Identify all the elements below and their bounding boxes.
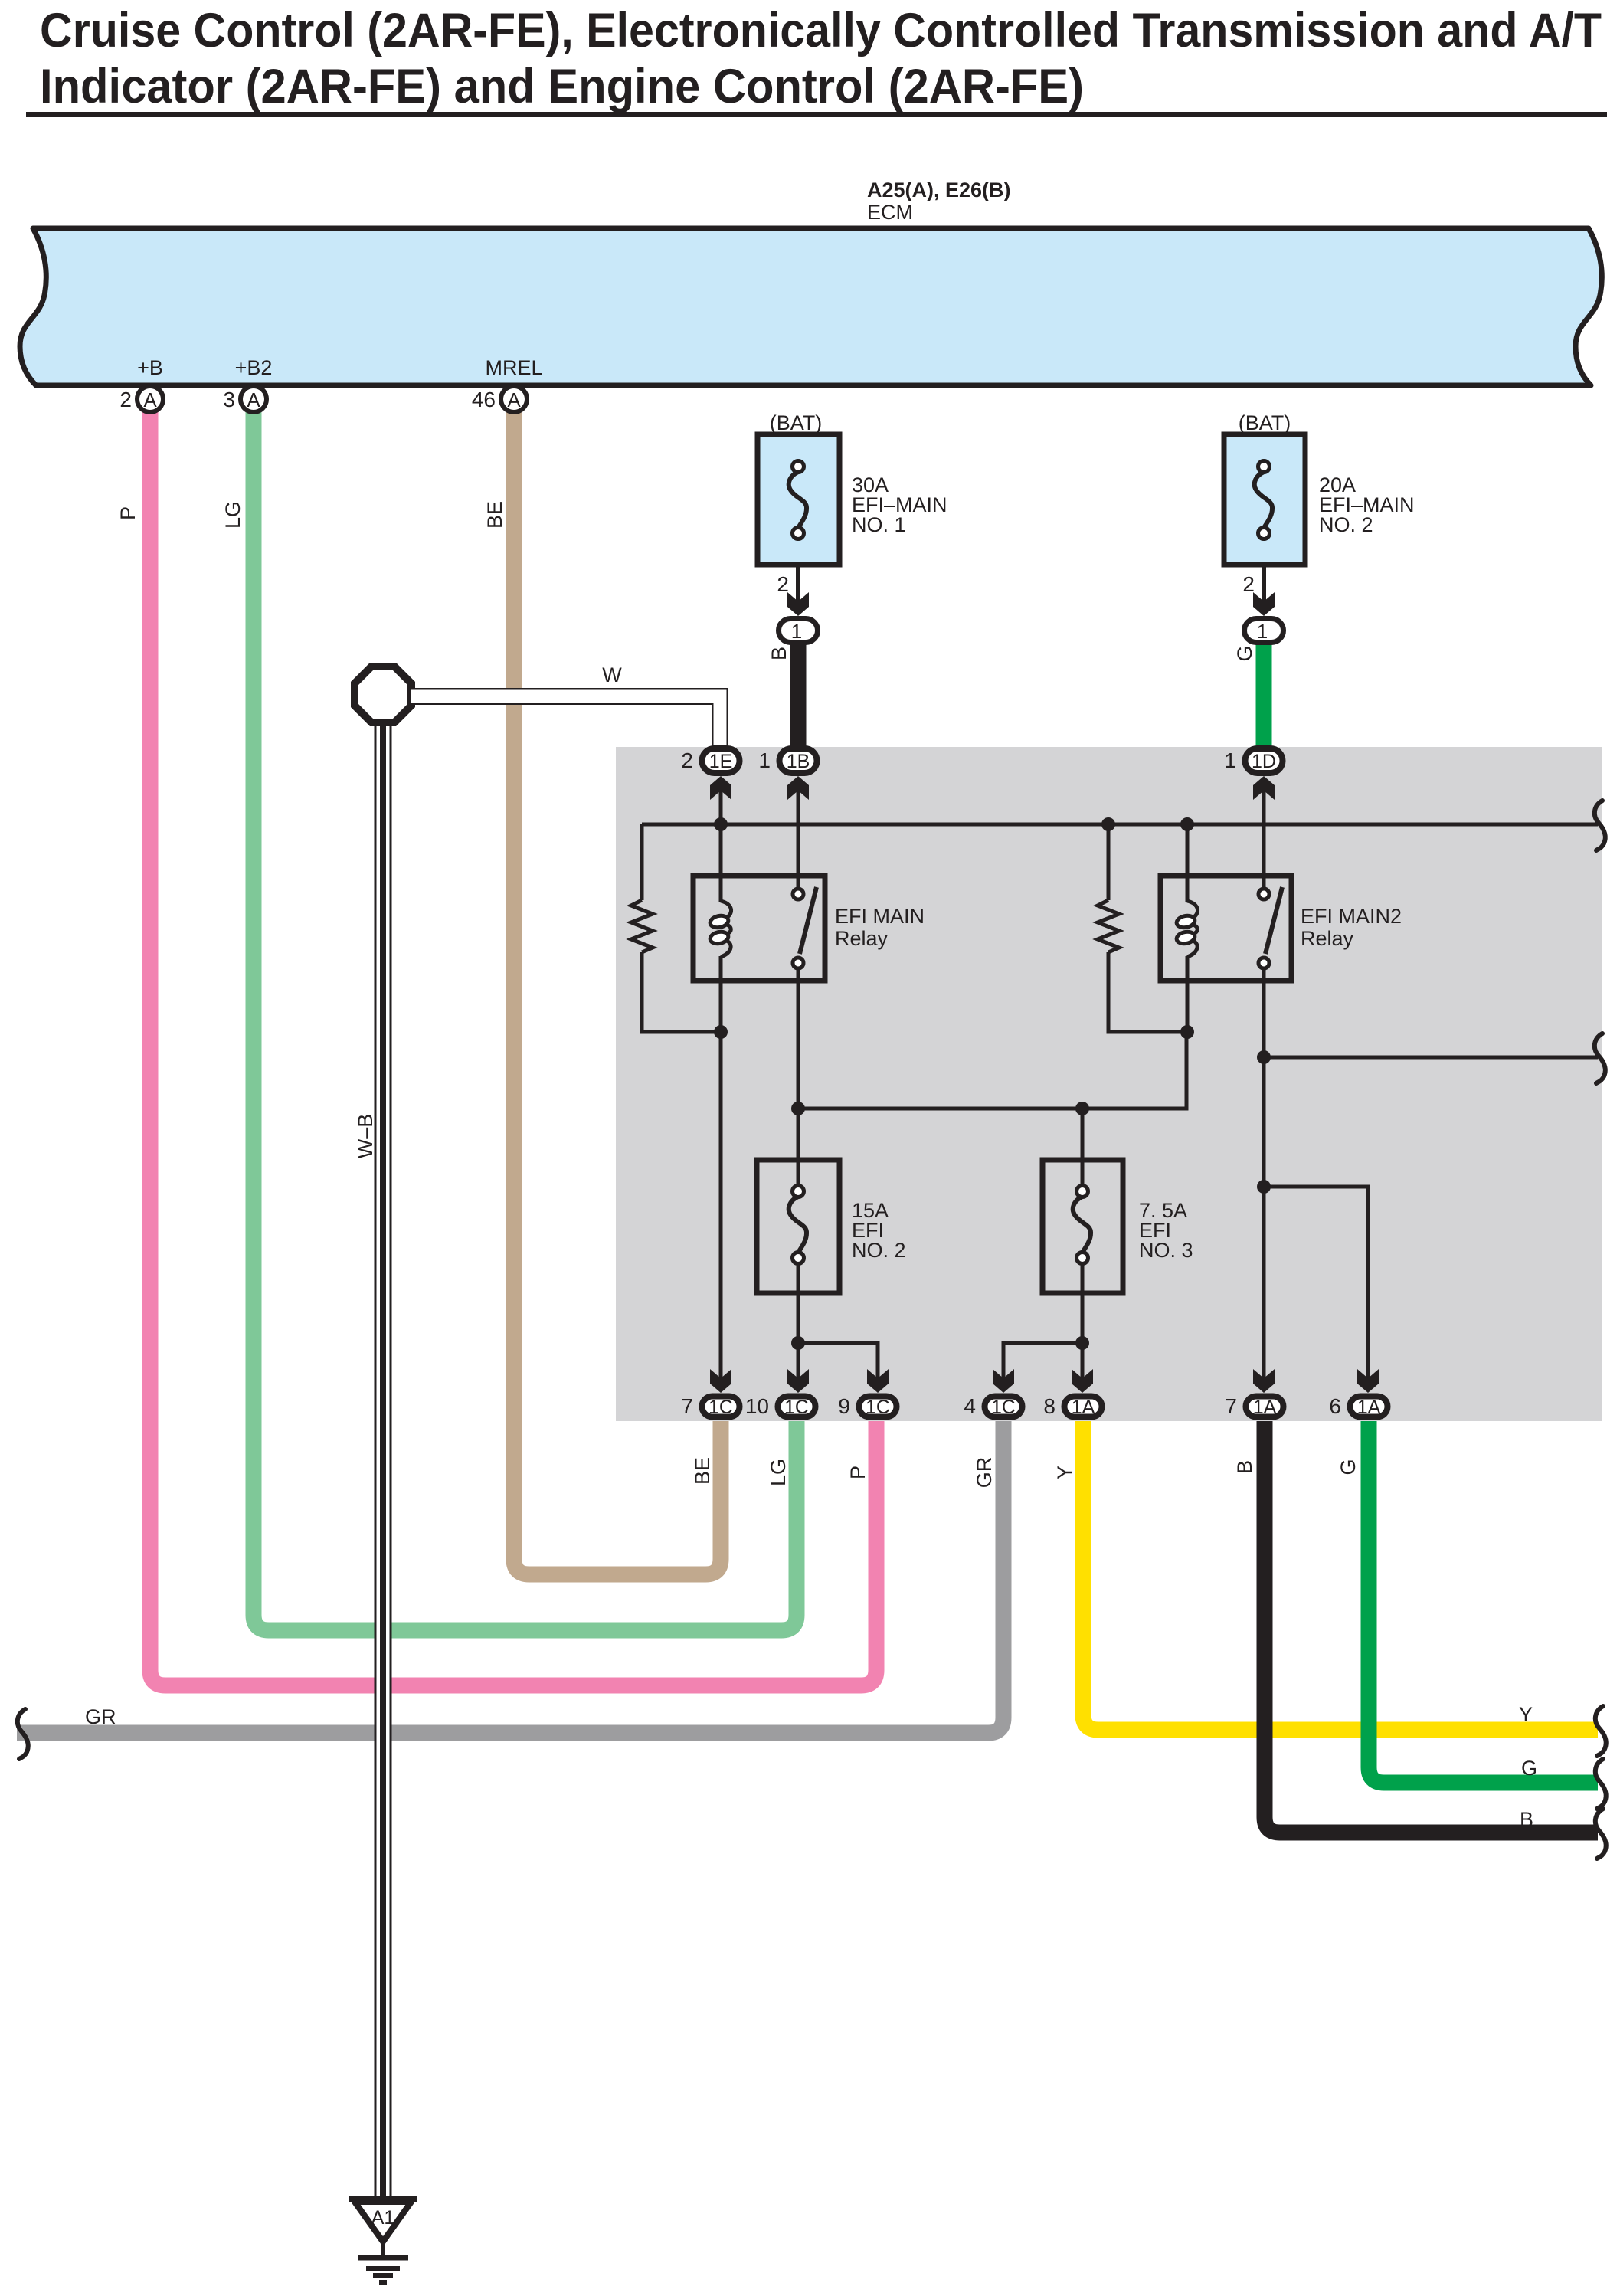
- fuse1 value label: [852, 473, 947, 536]
- wire P from pin 2: [150, 406, 876, 1685]
- svg-text:A1: A1: [371, 2207, 395, 2229]
- octagon junction node: [355, 667, 411, 722]
- connector oval 7 1A: [1225, 1394, 1283, 1418]
- svg-text:P: P: [116, 506, 139, 520]
- svg-text:2: 2: [681, 748, 693, 772]
- svg-text:1: 1: [1224, 748, 1236, 772]
- connector oval 10 1C: [745, 1394, 816, 1418]
- svg-text:1: 1: [1257, 620, 1268, 643]
- svg-text:1: 1: [758, 748, 771, 772]
- branch to 4 1C: [1003, 1343, 1082, 1378]
- svg-text:2: 2: [119, 388, 132, 411]
- svg-text:1A: 1A: [1072, 1397, 1095, 1418]
- arrow down into 9 1C: [867, 1369, 889, 1393]
- svg-text:Relay: Relay: [1301, 927, 1354, 950]
- relay1 switch wire (1B vertical): [797, 791, 800, 1378]
- circuit line1 (relay feed bus): [642, 823, 1598, 827]
- svg-text:A: A: [143, 388, 157, 411]
- arrow up into 1B: [787, 776, 809, 800]
- svg-text:(BAT): (BAT): [1239, 411, 1291, 434]
- svg-text:3: 3: [223, 388, 235, 411]
- svg-text:NO. 2: NO. 2: [852, 1239, 906, 1262]
- line1 left drop to resistor1: [640, 824, 644, 900]
- junction dot: relay1 coil / bus line1: [714, 817, 728, 831]
- svg-text:Cruise Control (2AR-FE), Elect: Cruise Control (2AR-FE), Electronically …: [40, 4, 1602, 57]
- pin circle A (3, +B2): [223, 386, 267, 412]
- svg-text:1C: 1C: [784, 1397, 809, 1418]
- svg-text:A25(A), E26(B): A25(A), E26(B): [867, 179, 1011, 201]
- svg-text:1C: 1C: [991, 1397, 1016, 1418]
- relay2 coil wire: [1186, 824, 1190, 1032]
- wire W-B octagon to ground: [375, 705, 392, 2197]
- svg-text:+B2: +B2: [235, 356, 273, 379]
- relay1 label: [835, 905, 925, 950]
- svg-text:A: A: [507, 388, 521, 411]
- svg-text:MREL: MREL: [485, 356, 542, 379]
- branch to 6 1A: [1264, 1187, 1368, 1378]
- line3 relay1 output to fuses and relay2 coil: [798, 1032, 1186, 1109]
- junction dot: resistor2 bottom / relay2 coil: [1180, 1025, 1194, 1039]
- svg-text:EFI MAIN2: EFI MAIN2: [1301, 905, 1402, 928]
- svg-text:46: 46: [472, 388, 496, 411]
- svg-text:6: 6: [1329, 1394, 1341, 1418]
- fuse1 lead to connector 1: [777, 565, 809, 616]
- svg-text:1A: 1A: [1253, 1397, 1277, 1418]
- ground symbol A1: [349, 2199, 417, 2282]
- svg-text:GR: GR: [973, 1457, 996, 1489]
- svg-text:4: 4: [964, 1394, 976, 1418]
- svg-text:Indicator (2AR-FE) and Engine: Indicator (2AR-FE) and Engine Control (2…: [40, 60, 1084, 113]
- svg-text:G: G: [1337, 1459, 1360, 1475]
- svg-text:LG: LG: [767, 1459, 790, 1486]
- fuse 30A EFI-MAIN NO.1 box: [758, 434, 839, 565]
- svg-text:W: W: [602, 663, 622, 686]
- svg-text:2: 2: [1242, 572, 1255, 596]
- junction dot: resistor2 / bus line1: [1101, 817, 1115, 831]
- fuse 15A EFI NO.2 box: [757, 1160, 839, 1293]
- connector oval 1 (fuse1): [779, 619, 818, 644]
- junction dot: relay1 switch output: [791, 1102, 805, 1115]
- svg-text:BE: BE: [691, 1457, 714, 1485]
- svg-text:B: B: [1520, 1808, 1533, 1831]
- svg-text:NO. 1: NO. 1: [852, 513, 906, 536]
- arrow down into 10 1C: [787, 1369, 809, 1393]
- wire G fuse2 to 1D: [1256, 645, 1272, 747]
- svg-text:9: 9: [838, 1394, 850, 1418]
- svg-text:B: B: [1233, 1460, 1256, 1474]
- pin circle A (46, MREL): [472, 386, 527, 412]
- junction dot: resistor1 bottom / relay1 coil: [714, 1025, 728, 1039]
- title: [26, 4, 1607, 117]
- break on B wire: [1595, 1809, 1606, 1859]
- svg-text:G: G: [1521, 1757, 1537, 1780]
- svg-text:B: B: [767, 647, 790, 660]
- line2 relay2 output bus: [1264, 1056, 1598, 1060]
- fuse2 value label: [1319, 473, 1415, 536]
- junction dot: relay2 switch output bus: [1257, 1050, 1271, 1064]
- arrow down into 4 1C: [993, 1369, 1014, 1393]
- svg-text:2: 2: [777, 572, 789, 596]
- junction dot: relay2 output branch to 6 1A: [1257, 1180, 1271, 1194]
- break on GR wire: [18, 1709, 28, 1759]
- wire W octagon to 1E: [410, 696, 720, 747]
- resistor2 bottom lead: [1108, 952, 1187, 1032]
- svg-text:LG: LG: [221, 501, 244, 529]
- fuse 7.5A label: [1139, 1199, 1193, 1262]
- svg-text:EFI MAIN: EFI MAIN: [835, 905, 925, 928]
- fuse 15A label: [852, 1199, 906, 1262]
- svg-text:Y: Y: [1519, 1703, 1533, 1726]
- svg-text:BE: BE: [483, 501, 506, 529]
- connector oval 9 1C: [838, 1394, 896, 1418]
- resistor2: [1098, 900, 1119, 952]
- connector oval 7 1C: [681, 1394, 739, 1418]
- junction dot: fuse 15A output branch: [791, 1336, 805, 1350]
- junction dot: fuse 7.5A output branch: [1075, 1336, 1089, 1350]
- svg-text:GR: GR: [85, 1705, 116, 1728]
- wire BE from pin 46: [514, 406, 721, 1574]
- arrow up into 1E: [710, 776, 731, 800]
- arrow down into 7 1A: [1253, 1369, 1275, 1393]
- svg-text:7: 7: [681, 1394, 693, 1418]
- connector oval 8 1A: [1043, 1394, 1101, 1418]
- svg-text:+B: +B: [137, 356, 163, 379]
- svg-text:NO. 2: NO. 2: [1319, 513, 1373, 536]
- svg-text:1D: 1D: [1252, 751, 1276, 772]
- resistor1: [631, 900, 653, 952]
- arrow down into 7 1C: [710, 1369, 731, 1393]
- arrow down into 8 1A: [1072, 1369, 1093, 1393]
- relay1 coil wire (1E vertical): [719, 791, 723, 1378]
- relay1 switch contacts and blade: [793, 887, 817, 968]
- wire B fuse1 to 1B: [790, 645, 807, 747]
- svg-text:1C: 1C: [709, 1397, 733, 1418]
- svg-text:NO. 3: NO. 3: [1139, 1239, 1193, 1262]
- break on G wire: [1595, 1759, 1606, 1809]
- break on line1: [1595, 801, 1605, 850]
- relay2 box: [1160, 876, 1291, 981]
- wire LG from pin 3: [254, 406, 797, 1630]
- wire GR from 4 1C: [17, 1420, 1003, 1733]
- svg-text:7: 7: [1225, 1394, 1237, 1418]
- connector oval 1 (fuse2): [1245, 619, 1284, 644]
- resistor1 bottom lead: [642, 952, 721, 1032]
- svg-text:1B: 1B: [787, 751, 810, 772]
- relay2 switch contacts and blade: [1258, 887, 1282, 968]
- svg-text:1C: 1C: [866, 1397, 890, 1418]
- arrow up into 1D: [1253, 776, 1275, 800]
- svg-text:1A: 1A: [1357, 1397, 1381, 1418]
- connector oval 6 1A: [1329, 1394, 1387, 1418]
- arrow down into 6 1A: [1357, 1369, 1379, 1393]
- relay2 switch wire (1D vertical): [1262, 791, 1266, 1378]
- svg-text:1: 1: [791, 620, 802, 643]
- svg-text:ECM: ECM: [867, 201, 913, 224]
- relay2 label: [1301, 905, 1402, 950]
- fuse 20A EFI-MAIN NO.2 box: [1224, 434, 1305, 565]
- junction dot: relay2 coil / bus line1: [1180, 817, 1194, 831]
- branch to 9 1C: [798, 1343, 878, 1378]
- wire G from 6 1A: [1369, 1420, 1598, 1783]
- gray junction block: [616, 747, 1602, 1421]
- wire B from 7 1A: [1265, 1420, 1598, 1833]
- connector oval 1D: [1224, 748, 1282, 773]
- resistor2 branch: [1107, 824, 1111, 900]
- svg-text:10: 10: [745, 1394, 769, 1418]
- connector oval 1B: [758, 748, 817, 773]
- connector oval 4 1C: [964, 1394, 1022, 1418]
- relay1 coil symbol: [709, 901, 731, 957]
- svg-text:A: A: [247, 388, 260, 411]
- svg-text:Relay: Relay: [835, 927, 889, 950]
- svg-text:(BAT): (BAT): [770, 411, 823, 434]
- junction dot: fuse 7.5A top feed: [1075, 1102, 1089, 1115]
- ECM block: [20, 228, 1602, 385]
- pin circle A (2, +B): [119, 386, 163, 412]
- relay2 coil symbol: [1176, 901, 1198, 957]
- svg-text:P: P: [846, 1466, 869, 1479]
- fuse 7.5A EFI NO.3 box: [1042, 1109, 1123, 1378]
- break on Y wire: [1595, 1706, 1606, 1756]
- break on line2: [1595, 1033, 1605, 1083]
- svg-text:G: G: [1233, 645, 1256, 661]
- svg-text:1E: 1E: [709, 751, 733, 772]
- svg-text:W–B: W–B: [354, 1114, 377, 1159]
- fuse2 lead to connector 1: [1242, 565, 1275, 616]
- svg-text:Y: Y: [1053, 1466, 1076, 1479]
- svg-text:8: 8: [1043, 1394, 1055, 1418]
- wire Y from 8 1A: [1083, 1420, 1598, 1730]
- connector oval 1E: [681, 748, 739, 773]
- relay1 box: [693, 876, 825, 981]
